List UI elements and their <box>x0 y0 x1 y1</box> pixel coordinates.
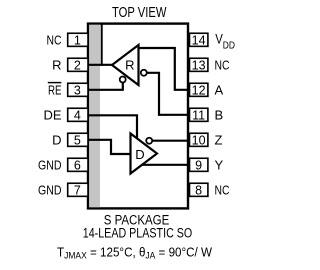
pin 2 box <box>68 58 88 71</box>
svg-text:TOP VIEW: TOP VIEW <box>112 4 167 21</box>
pin 3 box <box>68 83 88 96</box>
pin 14 box <box>190 33 208 46</box>
svg-text:14: 14 <box>192 33 206 47</box>
svg-text:Y: Y <box>215 157 224 172</box>
svg-text:GND: GND <box>38 182 62 197</box>
pin 5 box <box>68 133 88 146</box>
svg-text:10: 10 <box>192 133 206 147</box>
pin 13 box <box>190 58 208 71</box>
pin 11 box <box>190 108 208 121</box>
svg-text:NC: NC <box>215 182 230 197</box>
svg-text:3: 3 <box>74 83 81 97</box>
wire driver Y output to pin 9 <box>141 164 188 166</box>
pin 1 box <box>68 33 88 46</box>
svg-text:GND: GND <box>38 157 62 172</box>
driver triangle D <box>131 134 158 174</box>
pin 4 box <box>68 108 88 121</box>
vertical line: gray stripe right border from top edge to R wire <box>101 24 103 66</box>
svg-text:4: 4 <box>74 108 81 122</box>
svg-text:DE: DE <box>44 107 62 122</box>
wire receiver A input to pin 12 <box>138 48 188 90</box>
svg-text:13: 13 <box>192 58 206 72</box>
svg-text:RE: RE <box>48 82 62 97</box>
wire receiver B input bubble to pin 11 <box>147 73 188 115</box>
svg-text:9: 9 <box>195 158 202 172</box>
svg-text:7: 7 <box>74 183 81 197</box>
svg-text:8: 8 <box>195 183 202 197</box>
wire pin 4 DE to driver enable <box>88 115 137 140</box>
pin 9 box <box>190 158 208 171</box>
pin 8 box <box>190 183 208 196</box>
pin 10 box <box>190 133 208 146</box>
svg-text:A: A <box>215 82 224 97</box>
wire pin 2 to receiver output <box>88 64 112 66</box>
svg-text:NC: NC <box>215 57 230 72</box>
IC body U1 <box>88 24 188 209</box>
svg-text:6: 6 <box>74 158 81 172</box>
pin 12 box <box>190 83 208 96</box>
pin 7 box <box>68 183 88 196</box>
pin 6 box <box>68 158 88 171</box>
svg-text:B: B <box>215 107 224 122</box>
receiver inverting input bubble (B) <box>141 70 147 76</box>
svg-text:Z: Z <box>215 132 223 147</box>
svg-text:VDD: VDD <box>215 32 235 52</box>
svg-text:12: 12 <box>192 83 206 97</box>
svg-text:D: D <box>135 147 144 162</box>
receiver triangle R <box>112 45 139 85</box>
wire driver Z bubble to pin 10 <box>152 140 188 142</box>
svg-text:R: R <box>125 58 134 73</box>
pin-1 edge gray stripe <box>89 25 100 207</box>
svg-text:14-LEAD PLASTIC SO: 14-LEAD PLASTIC SO <box>83 226 193 241</box>
svg-text:11: 11 <box>192 108 205 122</box>
svg-text:1: 1 <box>74 33 81 47</box>
driver inverting output bubble (Z) <box>146 138 152 144</box>
receiver enable bubble (RE) <box>120 77 126 83</box>
svg-text:2: 2 <box>74 58 81 72</box>
svg-text:NC: NC <box>47 32 62 47</box>
svg-text:TJMAX = 125°C, θJA = 90°C/ W: TJMAX = 125°C, θJA = 90°C/ W <box>57 244 213 261</box>
wire pin 3 RE to receiver enable bubble <box>88 83 123 90</box>
svg-text:5: 5 <box>74 133 81 147</box>
wire pin 5 D to driver input <box>88 140 131 154</box>
svg-text:R: R <box>52 57 61 72</box>
svg-text:D: D <box>52 132 61 147</box>
overline of RE label <box>48 82 62 84</box>
